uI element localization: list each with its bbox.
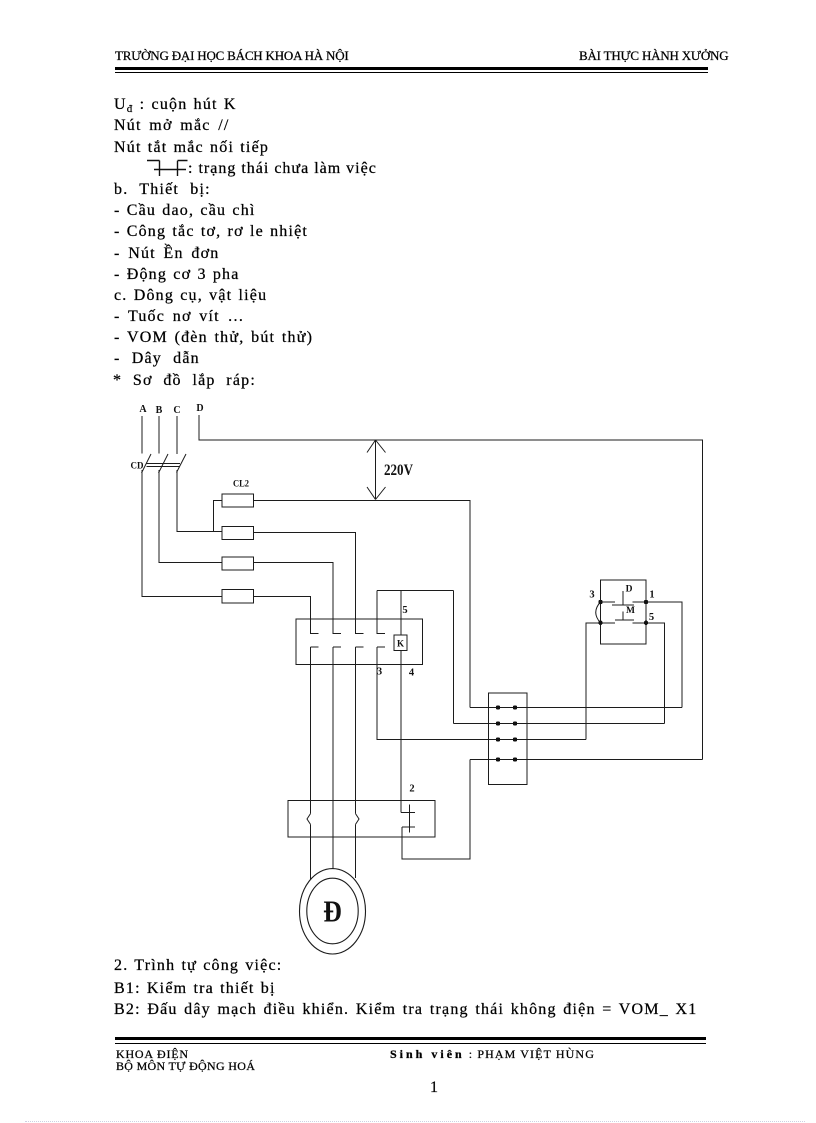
wire aux link node 5 xyxy=(377,591,454,724)
220V dimension arrow xyxy=(375,440,377,500)
bottom text xyxy=(114,955,282,976)
fuse 3 xyxy=(222,557,254,570)
contactor K box xyxy=(296,619,423,665)
footer left line 2 xyxy=(116,1059,255,1073)
wire riser row3 to button node 3 xyxy=(586,623,601,740)
svg-text:D: D xyxy=(196,403,203,414)
wire phase C to fuse 2 xyxy=(177,470,222,532)
page number xyxy=(430,1077,439,1098)
wire phase A drop xyxy=(141,416,143,454)
svg-text:220V: 220V xyxy=(384,462,413,479)
wire phase C drop xyxy=(176,416,178,454)
thermal contact cross bar xyxy=(409,805,411,833)
fuse 1 (control) xyxy=(222,494,254,507)
wire coil bottom pin 4 to thermal contact xyxy=(400,651,402,813)
switch blade A xyxy=(142,454,152,473)
wire phase B to fuse 3 xyxy=(159,470,222,563)
svg-text:CL2: CL2 xyxy=(233,480,249,490)
wire aux bottom pin 3 to terminal row 3 xyxy=(377,665,586,740)
button M (start, NO) xyxy=(601,612,647,623)
button D (stop, NC) xyxy=(601,591,647,605)
contactor aux contact xyxy=(377,619,385,665)
svg-text:5: 5 xyxy=(402,605,407,616)
footer rule thin xyxy=(115,1043,706,1044)
contactor pole 3 contact xyxy=(356,619,364,665)
switch blade B xyxy=(159,454,169,473)
svg-text:2: 2 xyxy=(409,784,414,795)
wire riser row2 to button node 5 xyxy=(646,623,665,724)
svg-text:3: 3 xyxy=(589,590,594,601)
terminal block contact dots xyxy=(496,705,517,761)
wire terminal row 1 xyxy=(470,707,682,709)
wire terminal row 4 to neutral rail xyxy=(470,759,703,761)
wire fuse 3 output to contactor pole 2 xyxy=(254,563,334,620)
footer student xyxy=(390,1047,595,1061)
wire phase B drop xyxy=(158,416,160,454)
thermal relay RN box xyxy=(288,801,435,838)
wire phase 3 through thermal to motor xyxy=(355,665,357,879)
svg-text:Đ: Đ xyxy=(323,894,342,929)
button link arc xyxy=(596,602,601,623)
wire fuse 4 output to contactor pole 1 xyxy=(254,597,311,620)
wire thermal contact return to terminal row 4 xyxy=(402,760,470,860)
wire phase A to fuse 4 xyxy=(142,470,222,597)
svg-text:3: 3 xyxy=(377,667,382,678)
wire branch to fuse 1 xyxy=(214,501,223,532)
motor inner circle xyxy=(307,878,358,944)
header rule thick xyxy=(115,67,708,70)
thermal contact bottom bar xyxy=(402,826,415,828)
svg-text:1: 1 xyxy=(649,590,654,601)
svg-text:5: 5 xyxy=(649,612,654,623)
coil K box xyxy=(394,635,407,651)
svg-text:M: M xyxy=(626,606,635,616)
NC contact symbol in text line 4 xyxy=(145,157,191,179)
button node dots xyxy=(598,600,648,625)
wire fuse 1 output to control riser xyxy=(254,501,471,708)
svg-text:D: D xyxy=(626,585,633,595)
svg-text:4: 4 xyxy=(409,668,415,679)
motor outer circle xyxy=(300,869,366,954)
contactor pole 1 contact xyxy=(311,619,319,665)
header rule thin xyxy=(115,72,708,73)
contactor pole 2 contact xyxy=(333,619,341,665)
svg-text:A: A xyxy=(139,404,147,415)
footer rule thick xyxy=(115,1037,706,1040)
thermal contact top bar xyxy=(401,812,415,814)
push button box xyxy=(601,580,647,644)
wire riser row1 to button node 1 xyxy=(646,602,682,708)
svg-text:C: C xyxy=(173,405,180,416)
switch CD linkage bars xyxy=(147,464,181,467)
header left text xyxy=(115,48,349,63)
thermal heater chevron 3 xyxy=(356,814,360,825)
fuse 4 xyxy=(222,590,254,604)
fuse 2 xyxy=(222,527,254,540)
wire phase 2 through thermal to motor xyxy=(332,665,334,870)
wire neutral D top rail xyxy=(199,415,703,760)
wire fuse 2 output to contactor pole 3 xyxy=(254,533,356,620)
terminal block box xyxy=(489,693,528,785)
svg-text:B: B xyxy=(156,405,163,416)
wire phase 1 through thermal to motor xyxy=(310,665,312,880)
svg-text:K: K xyxy=(397,639,404,649)
switch blade C xyxy=(177,454,187,473)
header right text xyxy=(579,48,728,63)
wire terminal row 2 xyxy=(454,723,665,725)
footer left line 1 xyxy=(116,1047,189,1061)
body text xyxy=(114,94,237,120)
bottom page-edge dotted line xyxy=(25,1121,805,1122)
wire coil top pin 5 xyxy=(400,591,402,636)
thermal heater chevron 1 xyxy=(307,814,311,825)
